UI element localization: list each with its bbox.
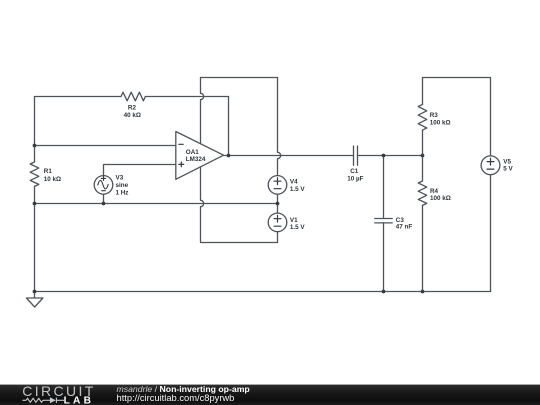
junction node C3 bottom / ground rail [382,290,386,294]
footer bar [0,384,540,405]
logo diode bar [55,398,57,403]
wire left vertical bottom [34,186,36,291]
wire ground rail [35,291,491,293]
resistor R3 [418,104,427,130]
resistor R2 [121,92,145,101]
junction node C1 / C3 tap [382,154,386,158]
op-amp OA1 [176,132,224,180]
svg-text:C1: C1 [350,168,359,175]
capacitor C1 [354,146,358,165]
CircuitLab logo [0,385,110,405]
svg-text:V3: V3 [116,175,124,182]
wire op-amp V- pin with hop [201,167,278,242]
V1 minus marker [274,225,281,227]
wire V5 bottom lead [490,175,492,292]
V3 sine glyph [98,180,108,189]
footer url text [117,393,235,403]
junction node V3 minus / ground net [102,202,106,206]
svg-text:R2: R2 [128,105,137,112]
svg-text:1.5 V: 1.5 V [290,224,306,231]
svg-text:LM324: LM324 [186,156,206,163]
svg-text:40 kΩ: 40 kΩ [124,112,141,119]
wire left vertical top [34,97,36,163]
V1 plus marker [274,215,281,222]
junction node C1 / R3 R4 divider [421,154,425,158]
logo wire lead [22,399,26,401]
capacitor C3 [375,219,392,223]
source V3 [94,176,113,195]
junction node R4 bottom / ground rail [421,290,425,294]
svg-text:10 µF: 10 µF [347,176,363,183]
resistor R1 [30,162,39,186]
wire R3 to R4 [422,130,424,181]
wire R4 bottom lead [422,205,424,291]
svg-text:R4: R4 [430,188,439,195]
wire op-amp output [224,155,354,157]
svg-text:1 Hz: 1 Hz [116,189,129,196]
wire top right [423,78,491,156]
junction node op-amp output / R2 feedback [227,154,231,158]
V5 minus marker [487,168,494,170]
svg-text:10 kΩ: 10 kΩ [44,176,61,183]
V4 plus marker [274,178,281,185]
svg-text:R3: R3 [430,112,439,119]
wire R2 left lead [35,96,122,98]
op-amp plus marker [179,162,184,167]
svg-text:V4: V4 [290,179,298,186]
svg-text:5 V: 5 V [503,166,513,173]
svg-text:100 kΩ: 100 kΩ [430,195,451,202]
resistor R4 [418,181,427,205]
wire R2 right to output node [145,97,228,156]
wire C3 top lead [383,156,385,219]
V5 plus marker [487,158,494,165]
wire V3 bottom [103,194,105,203]
logo wire to LAB [56,399,64,401]
wire ground net horizontal [35,203,278,205]
svg-text:100 kΩ: 100 kΩ [430,120,451,127]
source V1 [268,213,287,232]
wire inverting input [35,145,176,147]
V4 minus marker [274,188,281,190]
wire non-inverting input [104,165,176,176]
wire V4 top with hop [278,78,281,176]
svg-text:1.5 V: 1.5 V [290,186,306,193]
wire R3 top lead [422,78,424,105]
op-amp minus marker [179,143,183,145]
wire C1 to R3R4 node [358,155,423,157]
wire op-amp V+ pin with hop [201,78,204,144]
svg-text:sine: sine [116,182,129,189]
svg-text:47 nF: 47 nF [396,224,413,231]
svg-text:V1: V1 [290,217,298,224]
logo wire to diode [43,399,50,401]
source V5 [481,156,500,175]
source V4 [268,176,287,195]
svg-text:R1: R1 [44,168,53,175]
logo diode triangle [50,397,56,403]
wire C3 bottom lead [383,223,385,292]
V3 minus marker [102,190,106,192]
wire V4 to V1 [277,194,279,213]
ground symbol [26,292,43,308]
logo resistor squiggle [26,398,43,402]
svg-text:LAB: LAB [64,396,95,405]
junction node ground rail left [33,290,37,294]
svg-text:V5: V5 [503,159,511,166]
V3 plus marker [101,176,105,180]
junction node V4-V1 midpoint / ground net [276,202,280,206]
junction node R1 bottom / ground net [33,202,37,206]
footer title text [117,384,250,394]
wire top left loop [201,77,278,79]
junction node inverting-input / R1 [33,144,37,148]
